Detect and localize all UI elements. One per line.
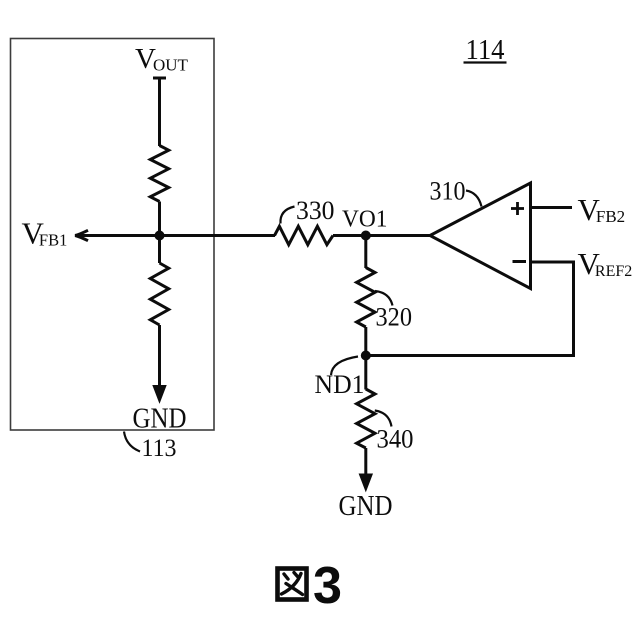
label 320 leader <box>375 291 393 306</box>
svg-text:340: 340 <box>377 425 414 454</box>
reference 113 leader <box>124 432 140 452</box>
node label ND1 leader <box>331 357 358 376</box>
node ND1 <box>361 351 371 361</box>
label 310 leader <box>466 191 482 207</box>
label 340 leader <box>375 411 392 427</box>
terminal tick at V_OUT <box>153 77 166 80</box>
svg-text:GND: GND <box>133 404 187 435</box>
label 330 leader <box>280 207 294 224</box>
arrowhead V_FB1 <box>75 230 88 240</box>
figure caption kanji ZU interior strokes <box>282 573 303 595</box>
op-amp plus input sign <box>511 202 524 215</box>
svg-text:GND: GND <box>339 491 393 522</box>
figure caption kanji ZU box <box>278 569 307 600</box>
svg-text:114: 114 <box>466 35 505 66</box>
resistor R2 (lower divider resistor in block 113) <box>150 263 168 325</box>
node junction in block 113 <box>155 231 165 241</box>
op-amp U310 triangle <box>430 183 531 289</box>
svg-text:320: 320 <box>376 303 413 332</box>
arrow to GND (block 113) <box>153 386 166 403</box>
svg-text:VO1: VO1 <box>342 207 388 233</box>
arrow to GND (below 340) <box>359 474 372 491</box>
wire 320 to node ND1 <box>364 327 367 356</box>
resistor 340 <box>357 389 375 448</box>
wire 340 to GND arrow <box>364 448 367 488</box>
svg-text:330: 330 <box>296 196 335 225</box>
wire R2 to GND arrow <box>158 325 161 400</box>
resistor 330 <box>275 226 334 244</box>
svg-text:113: 113 <box>142 435 177 462</box>
wire node to V_FB1 arrow <box>77 234 160 237</box>
wire plus input to V_FB2 <box>531 206 573 209</box>
node VO1 <box>361 231 371 241</box>
op-amp minus input sign <box>513 260 527 263</box>
svg-text:3: 3 <box>313 557 342 615</box>
wire V_OUT to R1 <box>158 78 161 146</box>
wire VO1 to op-amp output <box>366 234 430 237</box>
wire node to resistor 330 <box>160 234 276 237</box>
wire ND1 to resistor 340 <box>364 356 367 390</box>
svg-text:ND1: ND1 <box>315 370 365 399</box>
wire VO1 to resistor 320 <box>364 236 367 269</box>
underline for 114 <box>464 61 507 63</box>
wire node to R2 <box>158 236 161 264</box>
wire R1 to junction node <box>158 202 161 236</box>
resistor R1 (upper divider resistor in block 113) <box>150 146 168 202</box>
wire 330 to node VO1 <box>333 234 366 237</box>
wire minus input feedback to ND1 <box>366 262 574 356</box>
block 113 box <box>11 39 215 431</box>
resistor 320 <box>357 268 375 328</box>
svg-text:310: 310 <box>430 177 466 206</box>
